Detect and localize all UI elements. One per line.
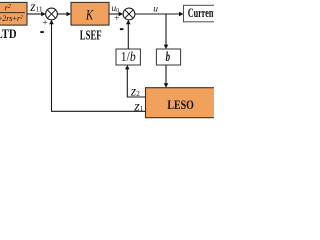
minus sign junction1 xyxy=(40,31,44,33)
svg-text:LESO: LESO xyxy=(167,97,194,112)
svg-text:s2+2rs+r2: s2+2rs+r2 xyxy=(0,14,23,23)
svg-text:b: b xyxy=(166,50,171,65)
minus sign junction2 xyxy=(120,28,124,30)
summing junction 1 xyxy=(46,8,58,20)
svg-text:u: u xyxy=(153,5,158,15)
svg-text:Current loop: Current loop xyxy=(188,5,214,20)
block K xyxy=(71,2,109,25)
svg-text:1/b: 1/b xyxy=(121,49,136,64)
wire 1/b to junction2 xyxy=(126,20,131,49)
wire LTD to junction1 xyxy=(27,12,46,17)
block LTD (transfer function r^2/(s^2+2rs+r^2)) xyxy=(0,2,27,25)
wire b to LESO xyxy=(164,65,169,88)
block b xyxy=(156,49,180,65)
block 1/b xyxy=(116,49,140,65)
wire z2: LESO to 1/b xyxy=(125,65,146,97)
summing junction 2 xyxy=(123,8,135,20)
wire junction1 to K xyxy=(57,12,71,17)
block Current loop xyxy=(184,5,240,22)
wire u: junction2 to Current loop xyxy=(135,12,184,17)
svg-text:+: + xyxy=(42,18,47,28)
svg-text:LTD: LTD xyxy=(0,27,17,41)
svg-text:LSEF: LSEF xyxy=(80,27,102,42)
wire K to junction2 xyxy=(109,12,123,17)
block LESO xyxy=(146,88,226,118)
svg-text:+: + xyxy=(114,14,119,24)
svg-text:K: K xyxy=(85,7,94,23)
wire z1: LESO to junction1 xyxy=(49,20,145,111)
wire u branch down to b xyxy=(164,14,169,49)
